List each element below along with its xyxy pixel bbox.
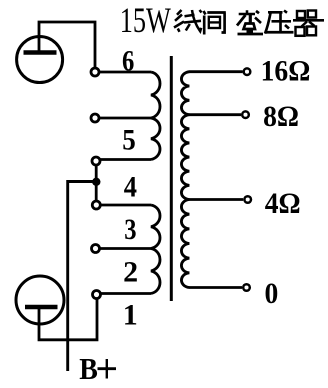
wire V1 plate to tap6 [39,22,95,68]
primary tap wire 4 [100,204,151,207]
junction dot [92,178,100,186]
svg-text:B: B [79,353,98,387]
svg-text:2: 2 [123,256,138,289]
primary tap wire bottom [100,292,151,295]
terminal 0 [243,284,250,291]
title chinese 间 [204,11,226,35]
wire V2 plate to bottom tap [39,299,97,340]
primary coil section mid-5 [151,118,160,160]
primary coil section 3-1 [151,249,160,294]
label 6 [122,44,134,77]
label 2 [123,256,138,289]
svg-text:8Ω: 8Ω [263,100,299,133]
transformer core [170,56,173,301]
terminal 4 ohm [244,196,251,203]
link wire taps 5-4 [95,162,98,206]
terminal 16 ohm [244,68,251,75]
terminal 8 ohm [242,111,249,118]
secondary tap wire 4 ohm [189,198,243,201]
primary tap wire mid [99,117,151,120]
terminal tap5 [92,157,100,165]
terminal tap4 [92,201,100,209]
secondary tap wire 16 ohm [189,70,243,73]
svg-text:4: 4 [124,171,137,204]
primary tap wire 5 [100,158,151,161]
title chinese 线 [174,10,202,32]
terminal tap1 [93,291,101,299]
svg-text:1: 1 [123,299,138,332]
title chinese 器 [293,11,324,36]
svg-text:6: 6 [122,44,134,77]
label B+ plus sign [98,367,117,370]
tube V1 (top) [17,37,63,83]
tube V2 (bottom) [16,276,64,324]
label 8 ohm [263,100,299,133]
svg-text:5: 5 [122,124,135,157]
svg-text:4Ω: 4Ω [265,187,301,220]
svg-text:15W: 15W [120,0,171,40]
svg-text:16Ω: 16Ω [261,54,311,87]
label 5 [122,124,135,157]
primary coil section 4-3 [151,205,160,249]
primary tap wire 3 [99,247,151,250]
secondary tap wire 0 [189,286,242,289]
label 16 ohm [261,54,311,87]
title 15W [120,0,171,40]
secondary tap wire 8 ohm [189,113,241,116]
secondary coil [181,72,189,288]
title chinese 压 [265,11,294,34]
primary tap wire 6 [99,71,151,74]
svg-text:0: 0 [265,277,279,310]
terminal mid [91,114,99,122]
title chinese 变 [237,10,263,34]
primary coil section 6-mid [151,72,160,118]
terminal tap3 [92,245,100,253]
B+ feed wire [68,182,97,372]
svg-text:3: 3 [124,213,136,246]
terminal tap6 [91,68,99,76]
label 4 [124,171,137,204]
label 0 [265,277,279,310]
label 3 [124,213,136,246]
label 1 [123,299,138,332]
tube V1 plate bar [24,50,57,54]
label B+ [79,353,98,387]
label 4 ohm [265,187,301,220]
tube V2 plate bar [25,305,58,310]
